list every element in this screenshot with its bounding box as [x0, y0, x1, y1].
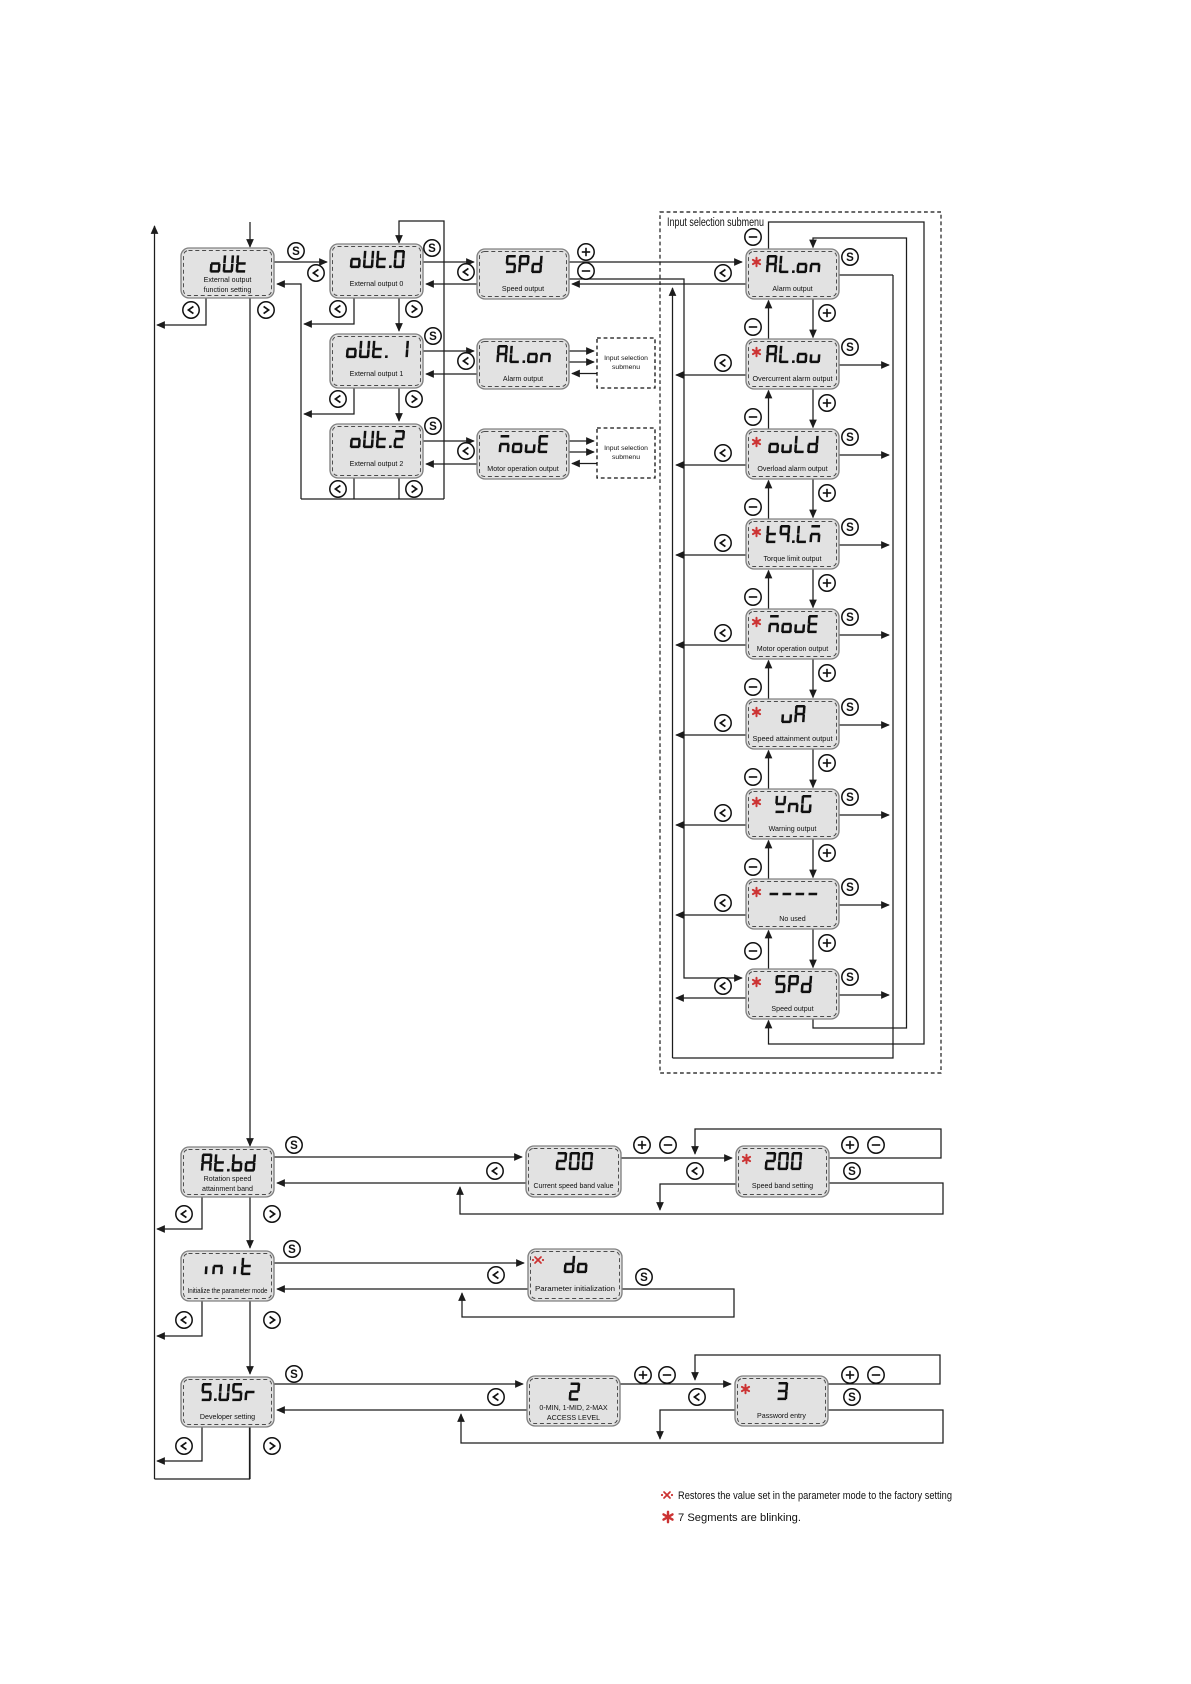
svg-text:S: S — [288, 1244, 296, 1256]
svg-text:S: S — [846, 882, 854, 894]
svg-text:Motor operation output: Motor operation output — [487, 465, 558, 473]
svg-text:Overload alarm output: Overload alarm output — [757, 465, 827, 473]
svg-text:S: S — [429, 421, 437, 433]
wire — [695, 1129, 941, 1158]
svg-text:Speed output: Speed output — [502, 285, 544, 293]
wire — [274, 1262, 524, 1264]
input selection submenu mini box 1 — [597, 338, 655, 388]
wire — [398, 298, 400, 331]
svg-text:submenu: submenu — [612, 364, 640, 371]
button S sub8 — [842, 969, 858, 985]
wire — [426, 373, 477, 375]
svg-text:submenu: submenu — [612, 454, 640, 461]
svg-text:Overcurrent alarm output: Overcurrent alarm output — [753, 375, 833, 383]
svg-text:S: S — [290, 1369, 298, 1381]
button back sub2 — [715, 445, 731, 461]
wire — [673, 275, 894, 1058]
wire — [157, 1197, 202, 1229]
wire — [277, 284, 301, 499]
wire — [157, 1427, 202, 1461]
button back 2 — [458, 264, 474, 280]
box submenu ouLd — [746, 429, 839, 479]
box submenu MouE — [746, 609, 839, 659]
wire — [768, 841, 770, 880]
button back sub6 — [715, 805, 731, 821]
wire — [676, 464, 746, 466]
wire — [676, 824, 746, 826]
wire — [620, 1383, 731, 1385]
wire — [154, 226, 156, 1479]
button back sub5 — [715, 715, 731, 731]
wire — [812, 839, 814, 878]
input selection submenu container — [660, 212, 941, 1073]
wire — [660, 1410, 735, 1439]
wire — [812, 479, 814, 518]
wire — [676, 914, 746, 916]
wire — [462, 1289, 734, 1317]
svg-text:7 Segments are blinking.: 7 Segments are blinking. — [678, 1512, 801, 1524]
button left oUt.1 — [330, 391, 346, 407]
svg-text:External output 0: External output 0 — [350, 280, 404, 288]
svg-text:Parameter initialization: Parameter initialization — [535, 1285, 615, 1293]
svg-text:Password entry: Password entry — [757, 1412, 806, 1420]
svg-text:Input selection: Input selection — [604, 355, 648, 362]
wire — [399, 221, 444, 499]
svg-text:attainment band: attainment band — [202, 1185, 253, 1193]
wire — [569, 440, 594, 442]
svg-text:Restores the value set in the: Restores the value set in the parameter … — [678, 1490, 952, 1502]
button right At.bd — [264, 1206, 280, 1222]
button minus sub1 — [745, 319, 761, 335]
wire — [768, 481, 770, 520]
svg-text:S: S — [846, 702, 854, 714]
button S sub7 — [842, 879, 858, 895]
button S At.bd — [286, 1137, 302, 1153]
wire — [301, 498, 444, 500]
button right oUt — [258, 302, 274, 318]
button S 3box — [844, 1389, 860, 1405]
button S oUt — [288, 243, 304, 259]
box oUt — [181, 248, 274, 298]
wire — [676, 734, 746, 736]
wire — [155, 1427, 250, 1479]
button minus 2box — [659, 1367, 675, 1383]
wire — [812, 749, 814, 788]
legend — [661, 1490, 952, 1524]
wire — [621, 1157, 732, 1159]
button back 200a — [487, 1163, 503, 1179]
button S S.USr — [286, 1366, 302, 1382]
button left oUt — [183, 302, 199, 318]
wire — [572, 463, 597, 465]
wire — [813, 238, 907, 1028]
button back sub1 — [715, 355, 731, 371]
button minus sub5 — [745, 679, 761, 695]
button S init — [284, 1241, 300, 1257]
box submenu ALou — [746, 339, 839, 389]
wire — [676, 554, 746, 556]
svg-text:Speed output: Speed output — [771, 1005, 813, 1013]
wire — [423, 440, 474, 442]
button plus sub0 — [819, 305, 835, 321]
svg-text:Alarm output: Alarm output — [503, 375, 543, 383]
wire — [812, 659, 814, 698]
svg-text:S: S — [848, 1392, 856, 1404]
svg-text:function setting: function setting — [204, 286, 252, 294]
button plus SPd — [578, 244, 594, 260]
wire — [569, 279, 742, 978]
button S do — [636, 1269, 652, 1285]
svg-text:Initialize the parameter mode: Initialize the parameter mode — [188, 1287, 268, 1295]
wire — [569, 361, 594, 363]
button minus sub4 — [745, 589, 761, 605]
svg-text:Alarm output: Alarm output — [772, 285, 812, 293]
button back sub4 — [715, 625, 731, 641]
box submenu ynG — [746, 789, 839, 839]
wire — [353, 478, 355, 499]
svg-text:S: S — [292, 246, 300, 258]
svg-text:S: S — [846, 342, 854, 354]
wire — [274, 1156, 522, 1158]
wire — [249, 1427, 251, 1479]
wire — [676, 644, 746, 646]
wire — [839, 364, 889, 366]
button right oUt.2 — [406, 481, 422, 497]
svg-text:S: S — [428, 243, 436, 255]
wire — [569, 451, 594, 453]
wire — [676, 997, 746, 999]
wire — [768, 931, 770, 970]
button S sub6 — [842, 789, 858, 805]
button plus sub4 — [819, 665, 835, 681]
svg-text:Input selection submenu: Input selection submenu — [667, 217, 764, 229]
wire — [569, 350, 594, 352]
button S sub5 — [842, 699, 858, 715]
button right S.USr — [264, 1438, 280, 1454]
wire — [768, 751, 770, 790]
box oUt.1 — [330, 334, 423, 388]
button left oUt.2 — [330, 481, 346, 497]
wire — [839, 634, 889, 636]
svg-text:Rotation speed: Rotation speed — [204, 1175, 252, 1183]
svg-text:S: S — [846, 252, 854, 264]
wire — [769, 222, 925, 1044]
wire — [277, 1182, 526, 1184]
button back 3box — [689, 1389, 705, 1405]
box password 3 — [735, 1376, 828, 1426]
wire — [274, 261, 327, 263]
wire — [839, 454, 889, 456]
svg-text:Developer setting: Developer setting — [200, 1413, 255, 1421]
wire — [695, 1355, 940, 1384]
wire — [423, 350, 474, 352]
box ALon left — [477, 339, 569, 389]
button plus sub3 — [819, 575, 835, 591]
button minus SPd — [578, 263, 594, 279]
wire — [249, 298, 251, 1146]
button plus sub5 — [819, 755, 835, 771]
svg-text:Speed band setting: Speed band setting — [752, 1182, 813, 1190]
box submenu t9LM — [746, 519, 839, 569]
wire — [569, 261, 742, 263]
button minus sub2 — [745, 409, 761, 425]
button minus sub7 — [745, 859, 761, 875]
wire — [812, 389, 814, 428]
wire — [812, 569, 814, 608]
wire — [768, 661, 770, 700]
button right oUt.0 — [406, 301, 422, 317]
box 200 setting — [736, 1146, 829, 1197]
wire — [839, 814, 889, 816]
button minus sub6 — [745, 769, 761, 785]
button back sub8 — [715, 978, 731, 994]
wire — [157, 1301, 202, 1336]
svg-text:S: S — [429, 331, 437, 343]
svg-text:S: S — [846, 522, 854, 534]
svg-text:S: S — [848, 1166, 856, 1178]
wire — [423, 261, 474, 263]
button plus 3box — [842, 1367, 858, 1383]
button back 2box — [488, 1389, 504, 1405]
button plus sub2 — [819, 485, 835, 501]
wire — [572, 283, 746, 285]
wire — [839, 544, 889, 546]
wire — [157, 298, 206, 325]
button left init — [176, 1312, 192, 1328]
box oUt.2 — [330, 424, 423, 478]
box submenu uA — [746, 699, 839, 749]
svg-text:Input selection: Input selection — [604, 445, 648, 452]
button minus 3box — [868, 1367, 884, 1383]
box access level 2 — [527, 1376, 620, 1426]
box MouE left — [477, 429, 569, 479]
box SPd — [477, 249, 569, 299]
button S oUt.1 — [425, 328, 441, 344]
button minus sub3 — [745, 499, 761, 515]
button plus 200b — [842, 1137, 858, 1153]
button left oUt.0 — [330, 301, 346, 317]
svg-text:0-MIN, 1-MID, 2-MAX: 0-MIN, 1-MID, 2-MAX — [539, 1404, 607, 1412]
svg-text:ACCESS LEVEL: ACCESS LEVEL — [547, 1414, 600, 1422]
button S sub1 — [842, 339, 858, 355]
button right oUt.1 — [406, 391, 422, 407]
svg-text:Speed attainment output: Speed attainment output — [753, 735, 833, 743]
svg-text:External output 1: External output 1 — [350, 370, 404, 378]
wire — [572, 373, 597, 375]
wire — [277, 1288, 528, 1290]
svg-text:S: S — [640, 1272, 648, 1284]
button back 4 — [458, 443, 474, 459]
button plus sub7 — [819, 935, 835, 951]
wire — [304, 298, 354, 324]
wire — [672, 288, 674, 1058]
wire — [812, 929, 814, 968]
wire — [460, 1183, 943, 1214]
button back sub7 — [715, 895, 731, 911]
button S sub4 — [842, 609, 858, 625]
button left S.USr — [176, 1438, 192, 1454]
wire — [249, 1197, 251, 1248]
svg-text:S: S — [846, 612, 854, 624]
button plus 200a — [634, 1137, 650, 1153]
wire — [426, 283, 477, 285]
wire — [277, 1409, 527, 1411]
box do — [528, 1249, 622, 1301]
button right init — [264, 1312, 280, 1328]
box At.bd — [181, 1147, 274, 1197]
button S oUt.2 — [425, 418, 441, 434]
wire — [249, 1301, 251, 1374]
wire — [839, 994, 889, 996]
wire — [461, 1410, 943, 1443]
button back do — [488, 1267, 504, 1283]
wire — [426, 463, 477, 465]
button minus sub8 — [745, 943, 761, 959]
svg-text:S: S — [846, 792, 854, 804]
svg-text:Motor operation output: Motor operation output — [757, 645, 828, 653]
wire — [768, 571, 770, 610]
button S sub0 — [842, 249, 858, 265]
wire — [398, 478, 400, 499]
button S sub2 — [842, 429, 858, 445]
button back sub0 — [715, 265, 731, 281]
button plus sub6 — [819, 845, 835, 861]
box submenu ALon — [746, 249, 839, 299]
box submenu SPd — [746, 969, 839, 1019]
svg-text:No used: No used — [779, 915, 805, 923]
button back 3 — [458, 353, 474, 369]
wire — [839, 274, 893, 276]
svg-text:Warning output: Warning output — [769, 825, 817, 833]
wire — [768, 391, 770, 430]
wire — [249, 222, 251, 247]
button plus sub1 — [819, 395, 835, 411]
button minus sub0 — [745, 229, 761, 245]
svg-text:Torque limit output: Torque limit output — [764, 555, 822, 563]
wire — [660, 1184, 736, 1210]
button left At.bd — [176, 1206, 192, 1222]
box init — [181, 1251, 274, 1301]
svg-text:Current speed band value: Current speed band value — [534, 1182, 614, 1190]
wire — [676, 374, 746, 376]
button S oUt.0 — [424, 240, 440, 256]
button minus 200b — [868, 1137, 884, 1153]
svg-text:External output: External output — [204, 276, 252, 284]
button minus 200a — [660, 1137, 676, 1153]
button back 1 — [308, 265, 324, 281]
button back 200b — [687, 1163, 703, 1179]
box 200 current — [526, 1146, 621, 1197]
wire — [304, 388, 354, 414]
wire — [274, 1383, 523, 1385]
wire — [812, 299, 814, 338]
box oUt.0 — [330, 244, 423, 298]
button S sub3 — [842, 519, 858, 535]
button back sub3 — [715, 535, 731, 551]
wire — [768, 301, 770, 340]
svg-text:S: S — [846, 432, 854, 444]
button plus 2box — [635, 1367, 651, 1383]
svg-text:S: S — [290, 1140, 298, 1152]
wire — [839, 724, 889, 726]
input selection submenu mini box 2 — [597, 428, 655, 478]
svg-text:External output 2: External output 2 — [350, 460, 404, 468]
button S 200b — [844, 1163, 860, 1179]
wire — [398, 388, 400, 421]
box S.USr — [181, 1377, 274, 1427]
svg-text:S: S — [846, 972, 854, 984]
wire — [839, 904, 889, 906]
